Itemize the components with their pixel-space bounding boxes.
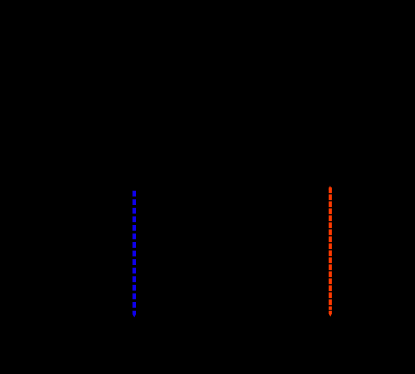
wire: red dashed highlighted net segment [329,187,332,310]
node: red wire start arrowhead (points up) [329,186,332,190]
node: blue wire end arrow dash (points down) [133,311,137,318]
node: red wire end arrow dash (points down) [329,311,332,317]
wire: blue dashed highlighted net segment [133,191,137,308]
